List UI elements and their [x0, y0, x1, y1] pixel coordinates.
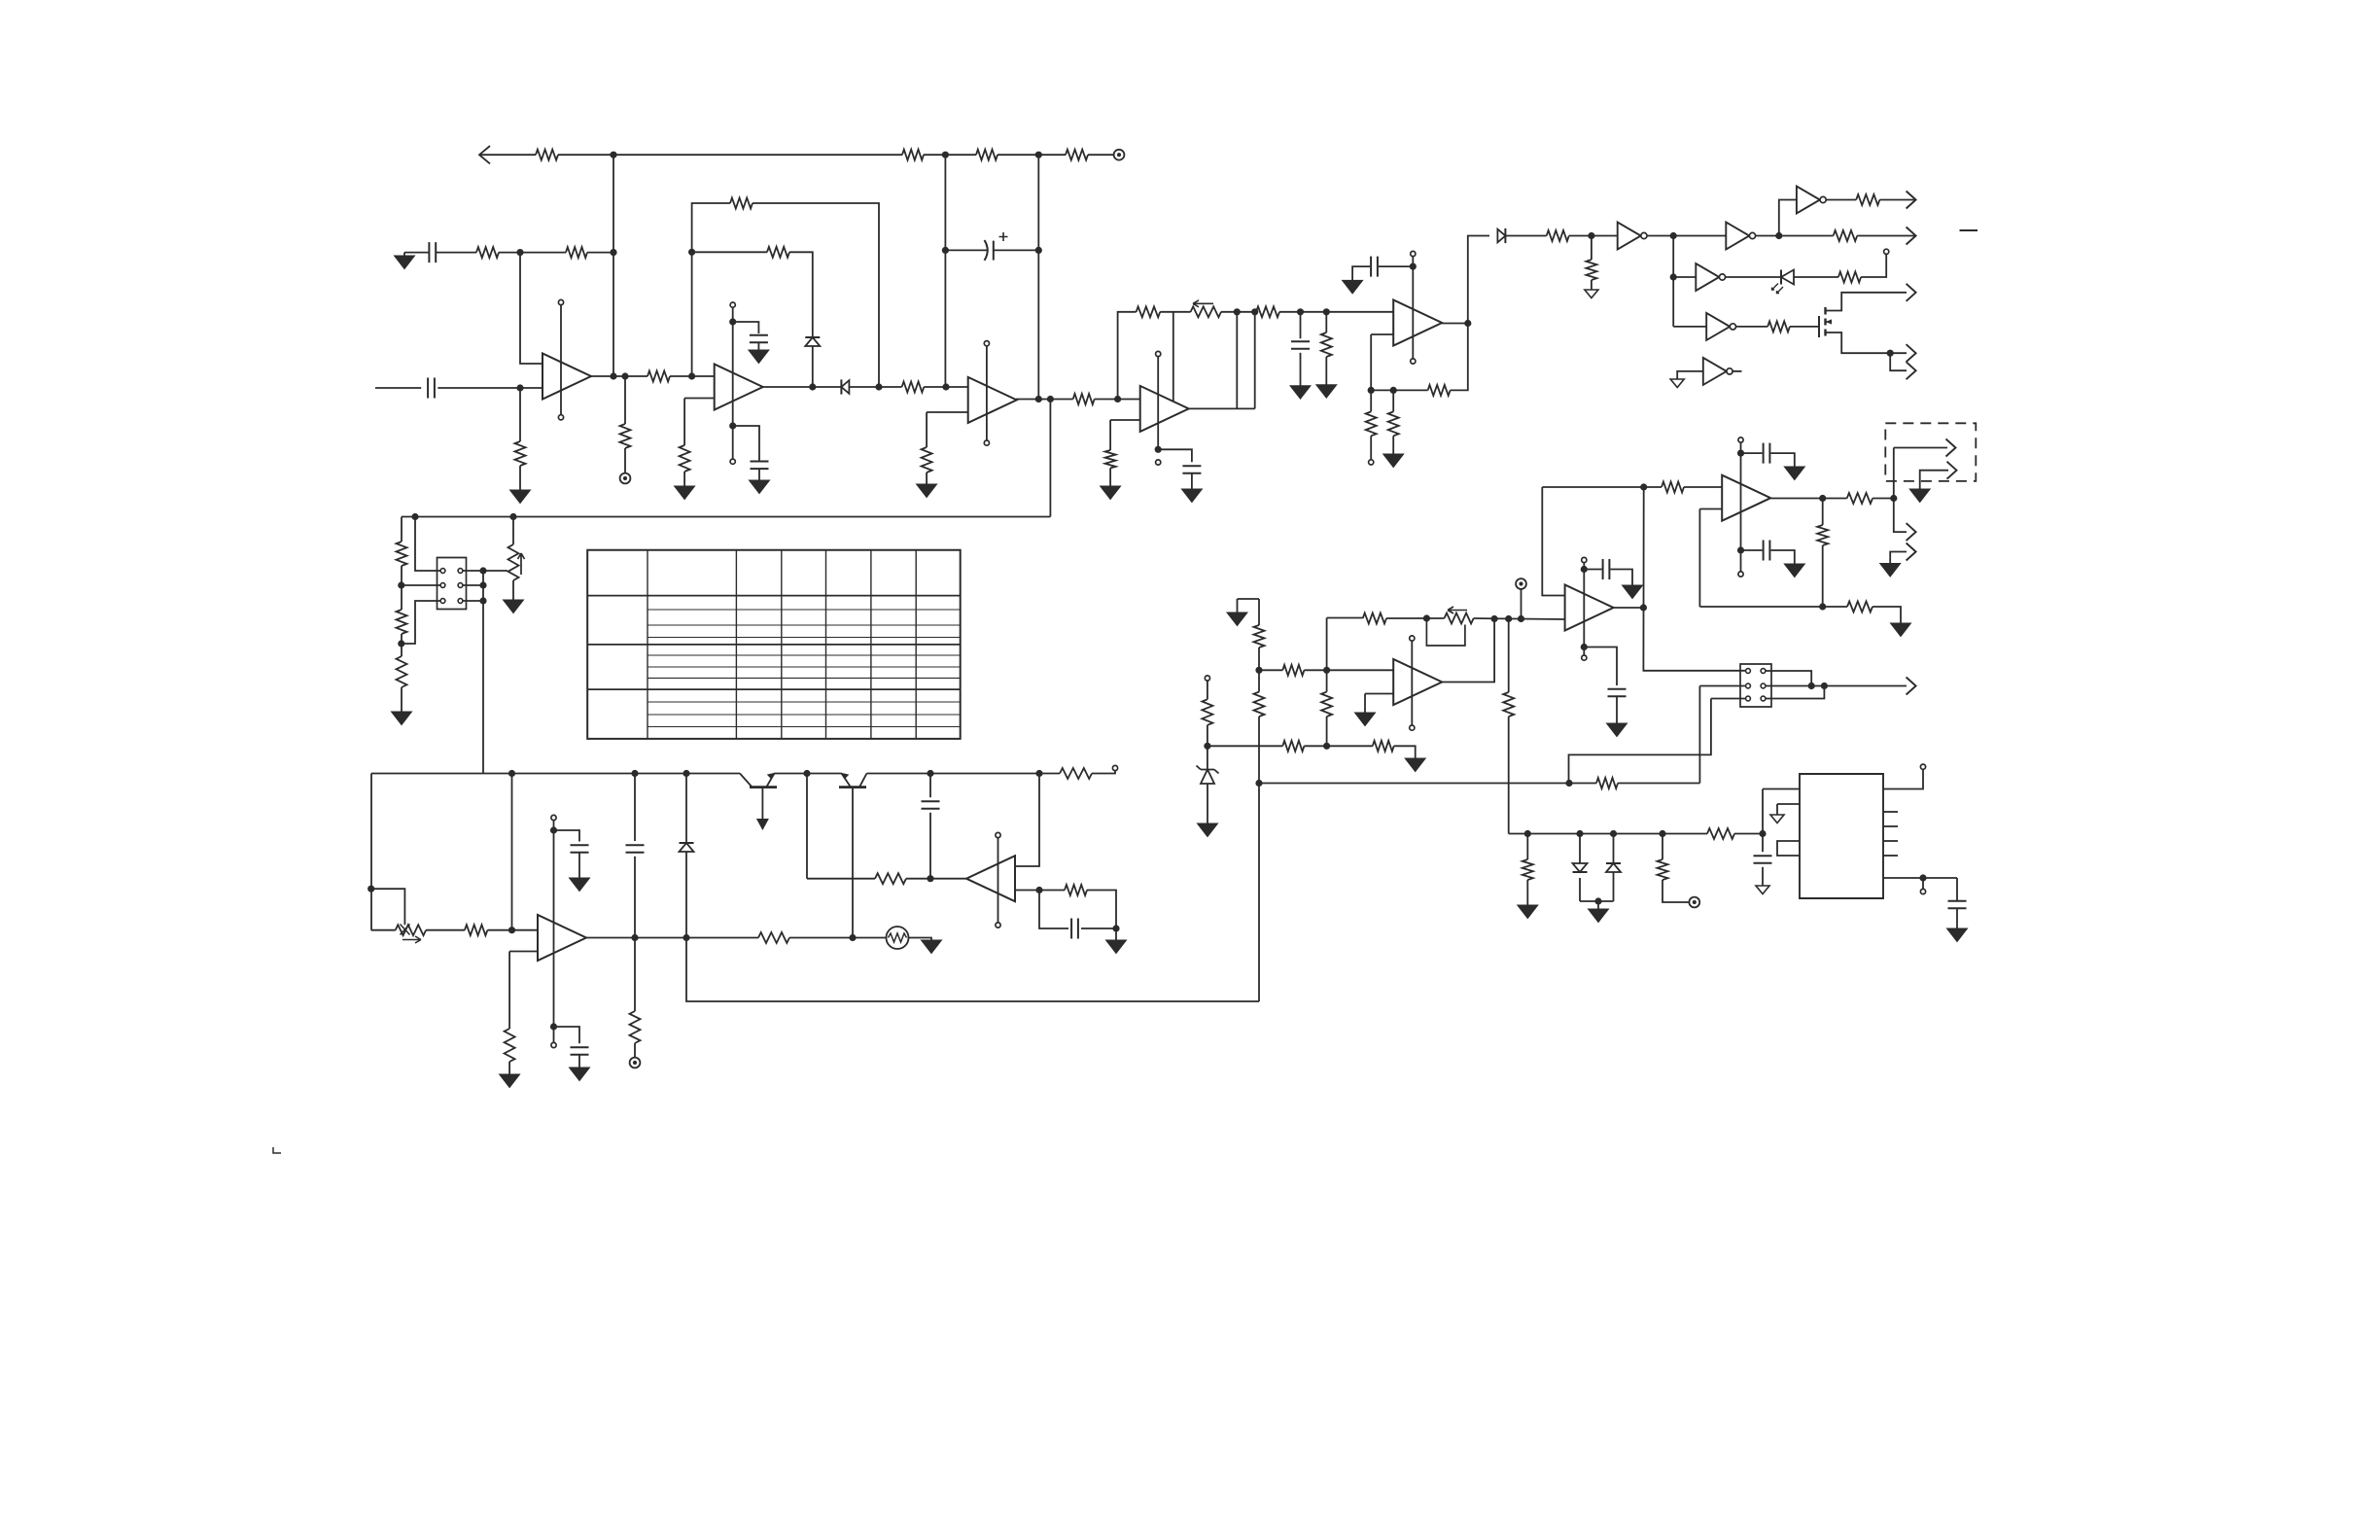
ground (open) G35 [1770, 815, 1784, 823]
IC U12 body [1800, 774, 1883, 898]
wire U5 Vee jog [554, 1027, 580, 1043]
junction term col [1518, 615, 1524, 622]
resistor R16 [397, 542, 407, 566]
op-amp U4 [1140, 386, 1189, 432]
wire R50 to pot [1386, 617, 1445, 619]
resistor R35 [1856, 194, 1879, 205]
wire top rail to terminal [1088, 154, 1114, 156]
wire R16-R17 [401, 566, 402, 610]
ground G18 [1383, 454, 1404, 468]
wiper arrow of RV3 [1193, 300, 1213, 307]
resistor R3 [976, 150, 997, 160]
inverter U8D [1696, 263, 1725, 291]
junction U11 Vcc [1581, 566, 1588, 573]
wire U11 power col [1583, 563, 1585, 645]
wire top rail segment 1 [479, 154, 536, 156]
junction U9 Vee [1737, 546, 1744, 553]
resistor R34 [1586, 260, 1596, 280]
wire IC pin1 [1763, 788, 1800, 790]
resistor R10 outer feedback [730, 198, 752, 209]
resistor R4 [1066, 150, 1088, 160]
junction out / Q2 col [849, 934, 856, 941]
potentiometer RV2 element [396, 925, 426, 935]
junction U5 Vcc [550, 826, 557, 833]
wire R42 to gnd corner [1872, 607, 1901, 623]
terminal TP4 [1516, 578, 1526, 589]
junction U4 Vee [1155, 446, 1162, 453]
junction bus col top [1505, 615, 1512, 622]
wire R7 to ground [519, 466, 521, 490]
wire R23 to terminal [634, 1043, 636, 1058]
diode D7 [1573, 863, 1588, 872]
junction input / R7 column [516, 384, 523, 391]
junction U9 out R40 [1819, 495, 1826, 502]
ground G27 [1227, 612, 1247, 626]
power pin bottom U2 [730, 459, 735, 464]
resistor R7 [515, 441, 526, 466]
op-amp U11 [1565, 585, 1614, 631]
junction IC out [1919, 874, 1926, 881]
resistor R45 [1282, 665, 1304, 676]
wire U8C out [1826, 199, 1856, 201]
resistor R53 [1707, 828, 1734, 839]
wire U4 -in col [1109, 420, 1111, 450]
potentiometer RV1 element [508, 544, 519, 580]
connector J1 body [437, 558, 467, 610]
wire J2 pin6 right [1767, 686, 1825, 699]
wire U10 out [1442, 619, 1494, 682]
wire R32 stem [1392, 390, 1394, 411]
wire U2 power column [732, 307, 734, 426]
wire fb row [1039, 890, 1065, 892]
ground G1 [395, 256, 415, 269]
wire R15 to U4 node [1095, 399, 1140, 401]
wire R38 to gate [1790, 326, 1819, 328]
wire source jog [1890, 353, 1907, 370]
op-amp U2 [715, 365, 763, 410]
resistor R23 [630, 1011, 641, 1043]
wire U9 input row [1542, 486, 1662, 488]
wire IC pin2 stub [1777, 803, 1800, 805]
resistor R39 [1662, 482, 1684, 493]
pin 5 J2 [1746, 696, 1751, 701]
junction U1 out / x631 [610, 372, 616, 379]
junction D1 node [809, 383, 816, 390]
wire x1364 low [1326, 717, 1328, 746]
wire RT1 to ground [909, 938, 932, 941]
ground G28 [1405, 758, 1425, 772]
ground (open) G20 [1585, 290, 1598, 298]
power pin top U7 [1411, 251, 1416, 256]
junction bus / connector col [411, 513, 418, 520]
junction row2 / +in column [516, 249, 523, 256]
wire U9 output [1771, 498, 1847, 500]
wire rail to x1069 [1015, 774, 1039, 867]
op-amp U7 [1393, 300, 1442, 346]
resistor R38 [1767, 321, 1790, 332]
wire inner feedback left [692, 251, 767, 253]
power pin bottom U7 [1411, 359, 1416, 364]
terminal LED row [1884, 249, 1889, 254]
resistor R2 [902, 150, 924, 160]
wire x1721 drop [1672, 236, 1674, 327]
wire R14 to ground [926, 472, 927, 484]
junction inv node 1 [1670, 232, 1677, 239]
ground G19 [1343, 280, 1363, 294]
junction U7 out [1464, 320, 1471, 327]
table grid [587, 550, 961, 739]
junction U2 input node [688, 372, 695, 379]
junction rowB x1364 [1323, 743, 1330, 750]
resistor R27 [1256, 306, 1279, 317]
wire column x526 [511, 774, 513, 930]
resistor R24 [1060, 768, 1092, 779]
capacitor C7 [571, 1047, 589, 1055]
power pin bottom U6 [996, 923, 1000, 927]
wire U8B out [1756, 235, 1834, 237]
wire rail left drop [370, 774, 372, 930]
wire x1748 drop [1698, 686, 1700, 784]
wire U5 Vcc jog [554, 830, 580, 842]
wire U9 Vee lead [1741, 549, 1763, 551]
resistor R6 [566, 247, 587, 258]
wire feedback outer right [752, 203, 879, 387]
power pin bottom U5 [551, 1042, 556, 1047]
wire J2 pin5 left [1711, 698, 1745, 700]
pin 6 J2 [1761, 696, 1766, 701]
wire R18 to ground [401, 687, 402, 712]
arrow out 5 [1907, 362, 1916, 379]
transistor Q1 [750, 786, 777, 788]
resistor R18 [397, 656, 407, 687]
wire x1242 seg1 [1207, 681, 1208, 699]
wire U9 fb left col [1698, 509, 1700, 608]
pin 2 J1 [458, 569, 463, 574]
wire x1295 seg3 [1258, 717, 1260, 1001]
plus sign of C4 [999, 232, 1008, 241]
wire IC pin5 [1883, 877, 1957, 879]
wire U11 Vee lead [1584, 647, 1617, 686]
wire R17-R18 [401, 634, 402, 656]
junction top rail / C4+ column [1035, 152, 1042, 158]
junction U3 out / bus column [1047, 396, 1054, 402]
capacitor C19 [1948, 901, 1967, 909]
junction left chain 2 [398, 640, 404, 647]
wire U5 power column [553, 821, 555, 1027]
corner mark [273, 1147, 281, 1153]
wire pot wiper drop (grey) [1172, 312, 1174, 412]
wire y805 run [1259, 783, 1596, 785]
wire U8A out [1647, 235, 1726, 237]
wire pin2 gnd stem [1776, 804, 1778, 815]
wire U8D out [1726, 276, 1781, 278]
pin 4 J2 [1761, 683, 1766, 688]
ground G25 [1909, 489, 1930, 503]
capacitor C18 [1754, 856, 1772, 863]
resistor R21 [758, 932, 789, 943]
junction U4 +in node [1114, 396, 1121, 402]
wire C3 to ground [757, 342, 759, 350]
power pin top U1 [558, 299, 563, 304]
junction R28 col [1323, 308, 1330, 315]
junction U5 Vee [550, 1023, 557, 1030]
wire x653 below [634, 938, 636, 1012]
wire y805 right [1618, 783, 1699, 785]
junction bus x1813 [1759, 830, 1766, 837]
wire R40 to fb row [1822, 545, 1824, 607]
junction U10 out col [1491, 615, 1498, 622]
terminal IC out [1920, 889, 1925, 893]
junction inv node 2 [1775, 232, 1782, 239]
wiper arrow of RV2 [402, 936, 421, 943]
wire R40 stem [1822, 499, 1824, 526]
power pin top U3 [984, 341, 989, 346]
wire G1 stem [403, 253, 405, 256]
junction bus x1659 [1610, 830, 1617, 837]
junction R13 / C4 column [942, 383, 949, 390]
wire U2 Vee stem [732, 426, 734, 459]
pin 1 J2 [1746, 669, 1751, 674]
wire D1 to output [812, 346, 814, 387]
wire R24 to terminal [1092, 771, 1115, 774]
wire U8E out [1736, 326, 1768, 328]
resistor R43 [1254, 625, 1265, 647]
capacitor C11 [1291, 341, 1310, 349]
junction x973 cap row [942, 247, 949, 254]
resistor R25 [1065, 885, 1087, 895]
junction rail Q2 col [803, 770, 810, 777]
junction y320 out corner [1251, 308, 1258, 315]
op-amp U1 [542, 354, 591, 400]
junction U5 +in col [508, 927, 515, 933]
resistor R31 [1366, 411, 1377, 436]
junction rail C8 [927, 770, 933, 777]
capacitor C9 [626, 845, 645, 853]
wire R41 to node2 [1872, 498, 1894, 500]
wire bus column x1551 [1508, 619, 1510, 693]
resistor R15 [1073, 394, 1095, 404]
wire R54 to ground [1526, 880, 1528, 905]
power pin bottom U9 [1738, 572, 1743, 577]
wire bus y857 b [1734, 833, 1763, 835]
junction fb row [1819, 603, 1826, 610]
dashed connector outline [1885, 423, 1976, 481]
wire rail y795.5 seg B [774, 773, 841, 775]
capacitor C13 [1371, 257, 1378, 277]
junction x1068 cap row [1035, 247, 1042, 254]
resistor R11 inner feedback [767, 247, 789, 258]
wire IC stub b [1883, 825, 1898, 827]
resistor R36 [1834, 230, 1858, 241]
junction x631 row2 [610, 249, 616, 256]
wire x1813 drop [1762, 789, 1764, 834]
resistor R55 [1658, 859, 1668, 880]
terminal TP1 [1114, 150, 1125, 160]
resistor R44 [1254, 692, 1265, 717]
wire R8 column [624, 376, 626, 424]
wire R39 to U9 [1684, 486, 1722, 488]
wire C13 to ground [1352, 266, 1370, 280]
resistor R1 [536, 150, 558, 160]
power pin top U2 [730, 302, 735, 307]
wire U9 power col [1740, 442, 1742, 550]
inverter U8C [1797, 187, 1826, 214]
junction C11 col [1297, 308, 1304, 315]
wire U2 Vee jog [733, 426, 759, 462]
wire Q2 base lead [852, 787, 854, 938]
wire R8 to terminal [624, 448, 626, 473]
ground G33 [1518, 905, 1538, 919]
wire IC out stem [1922, 878, 1924, 889]
wire chain to pin5 [402, 601, 440, 644]
wire U3 -in column [926, 412, 927, 447]
wire y903 row left [807, 878, 875, 880]
wire R9 to U2 node [670, 375, 715, 377]
junction fb node [1035, 887, 1042, 893]
wire left chain top [401, 517, 402, 542]
wire riser to top row [1779, 200, 1797, 236]
terminal x1242 [1205, 676, 1209, 681]
power pin top U6 [996, 832, 1000, 837]
terminal small [1112, 765, 1117, 770]
junction outer feedback / output [875, 383, 882, 390]
wire column x1068 [1037, 155, 1039, 399]
junction inv node 3 [1670, 273, 1677, 280]
inverter U8F [1703, 358, 1732, 385]
wire top rail segment 3 [924, 154, 976, 156]
wire x830 drop [806, 774, 808, 879]
wire arrow2 lead [1920, 471, 1948, 489]
wire pin4 stub [463, 584, 483, 586]
resistor R52 [1596, 778, 1618, 788]
wire R48 to gnd [1394, 746, 1416, 758]
wire bus column x1080 [1049, 400, 1051, 517]
wire arrow1 lead [1894, 447, 1947, 449]
ground arrow of Q1 [756, 819, 769, 830]
junction U2 Vee [729, 422, 736, 429]
transistor Q2 [839, 786, 866, 788]
wire U7 -in col [1370, 334, 1372, 390]
ground G23 [1784, 564, 1804, 577]
terminal TP3 [630, 1058, 641, 1068]
wire row y335 lead [1673, 326, 1706, 328]
junction pulldown [1588, 232, 1594, 239]
power pin top U4 [1156, 351, 1161, 356]
terminal TP2 [620, 473, 631, 484]
junction top rail / R5 column [610, 152, 616, 158]
wire D6 to ground [1207, 784, 1208, 823]
wire wiper jog [371, 889, 405, 925]
wire R7 column [519, 388, 521, 441]
wire x1625 stem [1579, 834, 1581, 864]
power pin bottom U10 [1410, 725, 1415, 730]
power pin bottom U4 [1156, 460, 1161, 465]
potentiometer RV3 element [1191, 306, 1221, 317]
power pin top U5 [551, 815, 556, 820]
junction fb row left [1368, 387, 1375, 394]
resistor R22 [875, 873, 906, 884]
wire bus y531 [402, 516, 1050, 518]
junction U11 Vee [1581, 644, 1588, 650]
wire top rail segment 4 [997, 154, 1066, 156]
wire C16 to ground [1611, 570, 1633, 586]
wire D4 to R33 [1505, 235, 1546, 237]
capacitor C5 [751, 462, 769, 470]
wire R31 to term [1370, 436, 1372, 460]
wire x1272 drop [1236, 312, 1238, 409]
junction source split [1887, 350, 1894, 357]
resistor R50 [1363, 613, 1386, 624]
resistor R9 [647, 371, 670, 382]
capacitor C15 [1764, 541, 1770, 561]
ground G31 [1623, 585, 1643, 599]
wire U9 Vee stem [1740, 550, 1742, 572]
capacitor C3 [750, 335, 768, 343]
wire U3 -in [927, 411, 968, 413]
junction rowA x1364 [1323, 667, 1330, 674]
wire x1295 seg1 [1258, 599, 1260, 625]
wire C5 to ground [758, 469, 760, 480]
wire LED row lead [1673, 276, 1696, 278]
resistor R41 [1847, 493, 1872, 504]
arrow in dashed 2 [1947, 462, 1957, 479]
wire C6 to ground [578, 853, 580, 878]
power pin top U11 [1582, 557, 1587, 562]
wire C14 to ground [1771, 453, 1795, 467]
junction fb row R31 col [1390, 387, 1397, 394]
capacitor C4 polarized straight plate [993, 241, 995, 261]
wire pot to corner [1221, 311, 1255, 313]
wire R22 to U6 [906, 878, 968, 880]
wire +in column x535 [520, 253, 542, 364]
wire U4 power col [1157, 357, 1159, 450]
resistor R5 [476, 247, 499, 258]
wire out riser x1290 [1254, 312, 1256, 409]
wire U4 Vee jog [1158, 449, 1192, 462]
wire R20 to ground [508, 1062, 510, 1074]
junction U9 out node2 [1890, 495, 1897, 502]
resistor R48 [1373, 741, 1394, 752]
wiper link of RV4 [1426, 618, 1465, 646]
junction y805 x1614 [1565, 780, 1572, 787]
terminal TP5 [1689, 897, 1699, 908]
arrow out 7 [1907, 543, 1916, 561]
wire fb cap left [1039, 891, 1068, 929]
wiper contact X of RV2 [401, 925, 410, 935]
wire input lead [375, 387, 421, 389]
wire pot4 right [1474, 618, 1565, 619]
terminal IC top right [1920, 764, 1925, 769]
wire C17 to ground [1616, 696, 1618, 723]
wire U3 power [986, 346, 988, 440]
MOSFET Q3 [1818, 316, 1820, 337]
pin 1 J1 [440, 569, 445, 574]
wire chain to pin3 [402, 584, 440, 586]
wire C2 to junction [437, 387, 542, 389]
junction rail x526 [508, 770, 515, 777]
wire row2 to x631 [587, 252, 613, 254]
wire C9 to out row [634, 857, 636, 938]
arrow out 2 [1907, 227, 1916, 245]
wire x1295 top jog [1238, 598, 1260, 600]
junction x1295 rowA [1255, 667, 1262, 674]
wire R28 stem [1325, 312, 1327, 332]
wire U7 output [1442, 323, 1468, 325]
wire pot2 top [512, 517, 514, 545]
junction U7 Vcc [1410, 263, 1417, 270]
resistor R17 [397, 610, 407, 634]
wire U5 output row [585, 937, 758, 939]
